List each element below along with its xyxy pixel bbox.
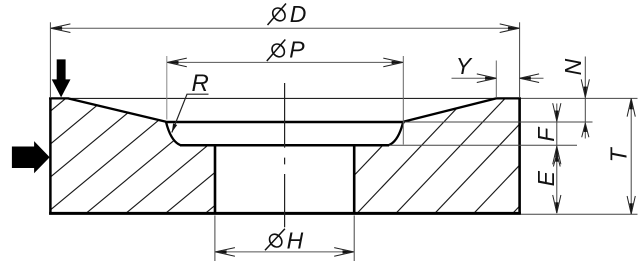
right taper face bbox=[403, 98, 496, 121]
black arrow pointing down at top-left land bbox=[52, 59, 71, 97]
dimension Y line right part bbox=[520, 77, 544, 79]
dimension P arrow left bbox=[167, 61, 178, 64]
svg-text:T: T bbox=[605, 146, 631, 162]
bottom extension line to right bbox=[521, 213, 638, 215]
F top arrow (down, outside above 122) bbox=[555, 111, 558, 122]
recess bottom edge (thick) bbox=[180, 144, 389, 147]
right fillet bbox=[389, 122, 404, 145]
label diameter P bbox=[267, 40, 287, 62]
E top arrow (up, second) bbox=[555, 154, 558, 162]
dimension H arrow right bbox=[343, 250, 354, 253]
svg-text:E: E bbox=[533, 170, 559, 186]
label diameter D bbox=[268, 4, 288, 26]
hole right edge bbox=[353, 145, 356, 213]
svg-text:D: D bbox=[290, 1, 307, 27]
hole left edge bbox=[214, 145, 217, 213]
top face extension line to right bbox=[521, 97, 638, 99]
left fillet R bbox=[166, 122, 181, 145]
svg-text:N: N bbox=[560, 58, 586, 75]
dimension D arrow right bbox=[508, 27, 519, 30]
dimension T line bbox=[630, 99, 632, 214]
top-left land (thick) bbox=[49, 97, 68, 99]
dimension N arrow down bbox=[584, 87, 587, 98]
dimension Y extension line bbox=[495, 61, 497, 98]
dimension P arrow right bbox=[392, 61, 403, 64]
left taper face bbox=[68, 98, 166, 121]
dimension H arrow left bbox=[215, 250, 226, 253]
dimension P extension lines bbox=[166, 56, 168, 120]
dimension H extension lines bbox=[214, 215, 216, 261]
dimension Y arrow right (pointing left) bbox=[520, 77, 531, 80]
dimension F/E line bbox=[556, 104, 558, 214]
dimension P line bbox=[167, 61, 402, 63]
right body edge bbox=[518, 98, 521, 215]
centerline bbox=[284, 83, 286, 227]
top-right land Y (thick) bbox=[496, 97, 521, 99]
svg-text:P: P bbox=[289, 36, 305, 62]
dimension D line bbox=[51, 27, 519, 29]
F bottom arrow (up, below 145) bbox=[555, 146, 558, 157]
svg-text:F: F bbox=[533, 126, 559, 142]
hatching left section bbox=[0, 88, 356, 222]
hatching right section bbox=[232, 88, 632, 222]
dimension D arrow left bbox=[51, 27, 62, 30]
black arrow pointing right at left edge bbox=[12, 141, 50, 173]
recess top edge (thick) bbox=[166, 121, 403, 123]
recess top extension line to right bbox=[403, 121, 592, 123]
svg-text:H: H bbox=[287, 227, 304, 253]
dimension N line bbox=[584, 57, 586, 139]
label diameter H bbox=[265, 229, 285, 251]
recess bottom extension line to right bbox=[389, 144, 577, 146]
dimension Y line left part bbox=[452, 77, 497, 79]
dimension D extension lines bbox=[49, 22, 51, 97]
T bottom arrow (down) bbox=[630, 204, 633, 215]
dimension H line bbox=[215, 251, 353, 253]
svg-text:Y: Y bbox=[456, 53, 473, 79]
bottom edge bbox=[49, 212, 521, 215]
wheel top back-rim edge (thin) bbox=[66, 97, 497, 99]
E bottom arrow (down at bottom) bbox=[555, 203, 558, 214]
left body edge bbox=[49, 98, 52, 215]
dimension Y arrow left (pointing right) bbox=[485, 77, 496, 80]
T top arrow (up) bbox=[630, 99, 633, 110]
dimension N arrow up bbox=[584, 123, 587, 132]
svg-text:R: R bbox=[192, 70, 209, 97]
